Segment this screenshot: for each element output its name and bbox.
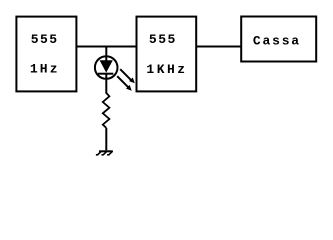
LED D1 anode stub	[105, 56, 107, 62]
wire resistor to ground	[105, 128, 107, 150]
LED D1 cathode bar	[98, 73, 113, 75]
wire junction to LED anode	[105, 47, 107, 62]
LED D1 triangle	[100, 60, 113, 72]
svg-text:Cassa: Cassa	[253, 33, 301, 48]
svg-text:555: 555	[31, 32, 59, 47]
block 555 1KHz	[137, 17, 197, 92]
LED emission arrow lower	[117, 76, 128, 87]
LED emission arrow upper	[120, 69, 131, 80]
wire 555/1KHz to Cassa	[196, 46, 241, 48]
ground hatch 2	[102, 151, 108, 155]
block 555 1Hz	[16, 17, 76, 92]
svg-text:1Hz: 1Hz	[30, 61, 60, 76]
ground hatch 1	[96, 151, 102, 155]
svg-text:1KHz: 1KHz	[146, 62, 187, 77]
block Cassa	[241, 17, 316, 62]
ground bar	[99, 150, 113, 152]
wire 555/1Hz to 555/1KHz	[76, 46, 136, 48]
ground hatch 3	[107, 151, 113, 155]
svg-text:555: 555	[149, 32, 177, 47]
LED D1 circle	[95, 56, 118, 79]
wire LED cathode to resistor	[105, 74, 107, 94]
resistor R1 zigzag	[103, 93, 110, 128]
